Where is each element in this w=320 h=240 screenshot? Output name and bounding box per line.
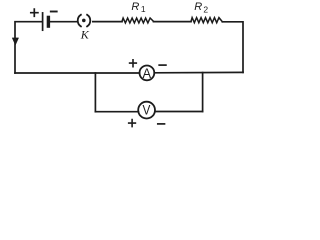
wire ammeter row left [15,72,140,74]
svg-text:V: V [143,101,151,117]
voltmeter loop left vertical wire [94,73,96,112]
wire top-left from corner to battery [15,22,42,73]
wire R2 to top-right corner, right vertical [222,22,243,73]
ammeter minus sign [159,64,166,66]
wire ammeter row right [154,71,243,73]
current direction arrow [12,38,18,45]
resistor R1 zigzag [122,18,154,23]
battery minus sign [51,11,57,13]
ammeter U-A circle [140,66,155,81]
plug key K right arc [87,15,90,27]
wire key to R1 [93,21,122,23]
key contact dot [82,19,86,23]
wire R1 to R2 [154,21,192,23]
svg-text:2: 2 [203,4,208,14]
battery negative plate (short thick) [47,17,50,26]
ammeter plus sign [130,60,137,67]
battery positive plate (long) [42,13,44,30]
svg-text:R: R [194,1,202,13]
resistor R2 zigzag [191,18,222,23]
svg-text:R: R [131,1,139,13]
voltmeter loop bottom-left wire [95,111,138,113]
voltmeter loop bottom-right wire [155,111,203,113]
voltmeter plus sign [129,120,136,127]
svg-text:1: 1 [141,4,146,14]
svg-text:A: A [143,65,152,81]
battery plus sign [31,9,38,16]
plug key K left arc [78,15,81,27]
svg-text:K: K [80,27,90,41]
voltmeter minus sign [158,123,165,125]
wire battery to key K [50,21,76,23]
voltmeter loop right vertical wire [202,73,204,112]
voltmeter V circle [138,102,155,119]
